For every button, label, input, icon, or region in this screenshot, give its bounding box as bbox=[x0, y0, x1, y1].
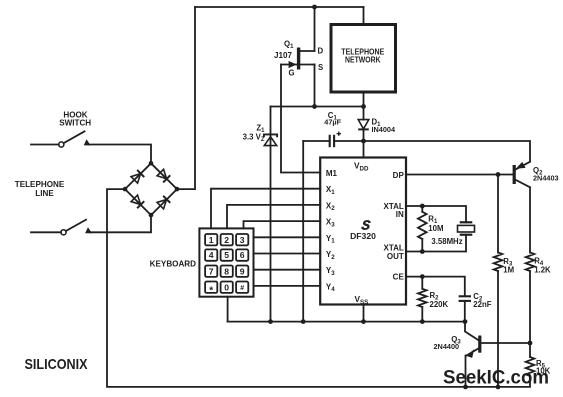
node bridge left bbox=[123, 187, 128, 192]
svg-text:6: 6 bbox=[240, 250, 245, 260]
label C2 22nF bbox=[473, 292, 491, 309]
svg-text:TELEPHONE: TELEPHONE bbox=[15, 180, 65, 189]
resistor R5 10K bbox=[526, 343, 535, 376]
label Q3 2N4400 bbox=[434, 335, 462, 351]
wire CE net bbox=[406, 277, 465, 296]
wire XTAL OUT net bbox=[406, 235, 466, 252]
wire left rail (top corner down to bridge right vertex) bbox=[177, 7, 195, 189]
wire telephone-network top lead bbox=[363, 7, 365, 25]
svg-text:4: 4 bbox=[209, 250, 214, 260]
wire zener/source/network net bbox=[271, 106, 364, 108]
resistor R4 1.2K bbox=[526, 187, 535, 343]
wire top rail bbox=[195, 6, 364, 8]
wire VSS pin drop bbox=[363, 305, 365, 322]
label X1 pin bbox=[326, 185, 335, 196]
label R3 1M bbox=[503, 257, 514, 274]
node Q3 collector / R4 / R5 bbox=[528, 341, 533, 346]
label XTAL OUT pin bbox=[384, 243, 404, 260]
node VDD junction bbox=[361, 139, 366, 144]
zener Z1 bbox=[264, 134, 277, 145]
svg-text:22nF: 22nF bbox=[473, 300, 491, 309]
wire Y4 to keypad row4 bbox=[254, 285, 321, 287]
wire Q1 source down to VDD input net bbox=[314, 65, 316, 107]
label KEYBOARD bbox=[150, 260, 196, 269]
label D1 IN4004 bbox=[372, 117, 396, 134]
node top-rail junction bbox=[312, 5, 317, 10]
key 4 bbox=[205, 249, 217, 260]
label R5 10K bbox=[536, 359, 551, 376]
svg-text:NETWORK: NETWORK bbox=[345, 56, 381, 65]
key 5 bbox=[221, 249, 233, 260]
svg-text:*: * bbox=[209, 285, 213, 296]
label VSS pin bbox=[355, 294, 369, 306]
svg-text:1: 1 bbox=[209, 235, 214, 245]
key 3 bbox=[236, 234, 248, 245]
key 7 bbox=[205, 266, 217, 277]
label CE pin bbox=[393, 273, 405, 282]
transistor Q2 2N4403 bbox=[513, 162, 530, 188]
svg-text:M1: M1 bbox=[326, 169, 338, 178]
svg-text:220K: 220K bbox=[430, 300, 449, 309]
svg-text:10M: 10M bbox=[428, 224, 443, 233]
svg-text:OUT: OUT bbox=[387, 252, 404, 261]
svg-text:47µF: 47µF bbox=[324, 118, 341, 127]
node bridge bottom bbox=[149, 213, 154, 218]
svg-text:8: 8 bbox=[224, 266, 229, 276]
svg-text:#: # bbox=[240, 285, 244, 292]
svg-text:7: 7 bbox=[209, 266, 214, 276]
label DF320 bbox=[350, 231, 376, 241]
wire C1 left plate down to VSS bus bbox=[302, 141, 304, 322]
node bus Z1 bbox=[268, 319, 273, 324]
label pin S bbox=[318, 63, 323, 72]
label Q2 2N4403 bbox=[533, 166, 559, 183]
key # bbox=[236, 282, 248, 293]
label DP pin bbox=[393, 171, 405, 180]
label R1 10M bbox=[428, 215, 443, 233]
capacitor C1 47uF bbox=[303, 132, 363, 148]
node rail R3 bbox=[496, 385, 501, 390]
node bus VSS bbox=[361, 319, 366, 324]
diode bridge CR bottom-right bbox=[157, 196, 170, 209]
block TELEPHONE NETWORK bbox=[331, 25, 396, 93]
label pin G bbox=[289, 69, 295, 78]
diode bridge CR top-left bbox=[131, 170, 144, 183]
node CE / R2 bbox=[420, 274, 425, 279]
svg-text:IN: IN bbox=[396, 210, 404, 219]
svg-text:KEYBOARD: KEYBOARD bbox=[150, 260, 196, 269]
wire X2 to keypad col2 bbox=[227, 205, 320, 229]
svg-text:S: S bbox=[318, 63, 323, 72]
logo Siliconix S mark bbox=[361, 218, 372, 233]
label pin D bbox=[318, 47, 324, 56]
label J107 bbox=[274, 51, 293, 60]
switch S1 hook switch bbox=[31, 131, 91, 147]
label Y2 pin bbox=[326, 250, 335, 261]
key 6 bbox=[236, 249, 248, 260]
label SILICONIX bbox=[25, 357, 88, 373]
crystal Y1 3.58MHz bbox=[458, 222, 475, 234]
wire X1 to keypad col1 bbox=[211, 189, 320, 229]
wire Z1 branch vertical bbox=[270, 107, 272, 322]
svg-text:9: 9 bbox=[240, 266, 245, 276]
node bus C2/Q3 bbox=[463, 319, 468, 324]
svg-text:SeekIC.com: SeekIC.com bbox=[443, 367, 549, 389]
node XTAL IN / R1 bbox=[420, 204, 425, 209]
node XTAL OUT / R1 bbox=[420, 249, 425, 254]
wire lower switch to bridge bottom bbox=[90, 215, 151, 232]
svg-text:D: D bbox=[318, 47, 324, 56]
label X3 pin bbox=[326, 218, 335, 229]
wire network bottom lead bbox=[363, 92, 365, 120]
svg-text:10K: 10K bbox=[536, 367, 551, 376]
svg-text:LINE: LINE bbox=[35, 189, 54, 198]
svg-text:2: 2 bbox=[224, 235, 229, 245]
wire bridge left to ground rail (bottom rail) bbox=[107, 189, 530, 387]
key 8 bbox=[221, 266, 233, 277]
svg-text:2N4400: 2N4400 bbox=[434, 342, 460, 351]
label X2 pin bbox=[326, 201, 335, 212]
svg-text:1.2K: 1.2K bbox=[534, 266, 551, 275]
key 2 bbox=[221, 234, 233, 245]
svg-text:0: 0 bbox=[224, 282, 229, 292]
wire keypad common down to VSS bus bbox=[227, 297, 229, 322]
svg-text:5: 5 bbox=[224, 250, 229, 260]
key * bbox=[205, 282, 217, 297]
svg-text:J107: J107 bbox=[274, 51, 293, 60]
wire Q1 gate down to M1 pin bbox=[281, 65, 320, 173]
op-amp U1 DF320 IC body bbox=[320, 158, 406, 305]
resistor R1 10M bbox=[418, 206, 427, 252]
svg-text:G: G bbox=[289, 69, 295, 78]
wire bridge frame bbox=[125, 163, 177, 215]
diode D1 IN4004 bbox=[358, 120, 369, 141]
switch S2 telephone line switch bbox=[31, 220, 92, 235]
label R4 1.2K bbox=[534, 256, 551, 274]
wire X3 to keypad col3 bbox=[244, 221, 321, 228]
svg-text:1M: 1M bbox=[503, 266, 514, 275]
svg-text:SWITCH: SWITCH bbox=[59, 118, 91, 127]
diode bridge CR bottom-left bbox=[131, 195, 144, 208]
svg-text:CE: CE bbox=[393, 273, 405, 282]
wire DP to Q2 base bbox=[406, 174, 513, 176]
resistor R3 1M bbox=[494, 175, 503, 387]
wire Q1 drain to top rail bbox=[314, 7, 316, 51]
wire Y3 to keypad row3 bbox=[254, 269, 321, 271]
label R2 220K bbox=[430, 291, 449, 309]
node network junction bbox=[361, 104, 366, 109]
label 3.58MHz bbox=[431, 237, 462, 246]
key 9 bbox=[236, 266, 248, 277]
label HOOK SWITCH bbox=[59, 110, 91, 127]
wire Y1 to keypad row1 bbox=[254, 236, 321, 238]
node rail Q3 emitter bbox=[463, 385, 468, 390]
node DP/R3 junction bbox=[496, 172, 501, 177]
svg-text:DF320: DF320 bbox=[350, 231, 376, 241]
transistor Q3 2N4400 bbox=[465, 322, 530, 387]
svg-text:SILICONIX: SILICONIX bbox=[25, 357, 88, 373]
resistor R2 220K bbox=[418, 277, 427, 322]
label Y1 pin bbox=[326, 234, 335, 245]
label Q1 bbox=[284, 39, 294, 50]
diode bridge CR top-right bbox=[157, 169, 170, 182]
watermark SeekIC.com bbox=[443, 367, 549, 389]
wire hook switch to bridge top bbox=[89, 145, 152, 164]
svg-text:DP: DP bbox=[393, 171, 405, 180]
node bridge right bbox=[175, 187, 180, 192]
label VDD pin bbox=[354, 161, 369, 173]
svg-text:IN4004: IN4004 bbox=[372, 125, 396, 134]
wire VDD into IC bbox=[363, 141, 365, 158]
key 0 bbox=[221, 282, 233, 293]
node bus C1 bbox=[301, 319, 306, 324]
key 1 bbox=[205, 234, 217, 245]
label C1 47uF bbox=[324, 111, 341, 127]
node source junction bbox=[312, 104, 317, 109]
transistor Q1 J107 JFET bbox=[281, 48, 315, 70]
svg-text:3: 3 bbox=[240, 235, 245, 245]
label M1 pin bbox=[326, 169, 338, 178]
capacitor C2 22nF bbox=[459, 296, 471, 321]
svg-text:3.58MHz: 3.58MHz bbox=[431, 237, 462, 246]
block KEYBOARD keypad bbox=[199, 228, 253, 296]
wire VDD to Q2 emitter bbox=[364, 141, 531, 162]
node bridge top bbox=[149, 161, 154, 166]
label XTAL IN pin bbox=[384, 202, 405, 219]
label Z1 3.3VZ bbox=[243, 123, 266, 143]
label Y3 pin bbox=[326, 266, 335, 277]
svg-text:2N4403: 2N4403 bbox=[533, 174, 559, 183]
wire XTAL IN net bbox=[406, 206, 466, 222]
wire Y2 to keypad row2 bbox=[254, 253, 321, 255]
node bus R2 bbox=[420, 319, 425, 324]
wire VSS bus bbox=[228, 321, 465, 323]
label Y4 pin bbox=[326, 282, 335, 293]
label TELEPHONE LINE bbox=[15, 180, 65, 198]
